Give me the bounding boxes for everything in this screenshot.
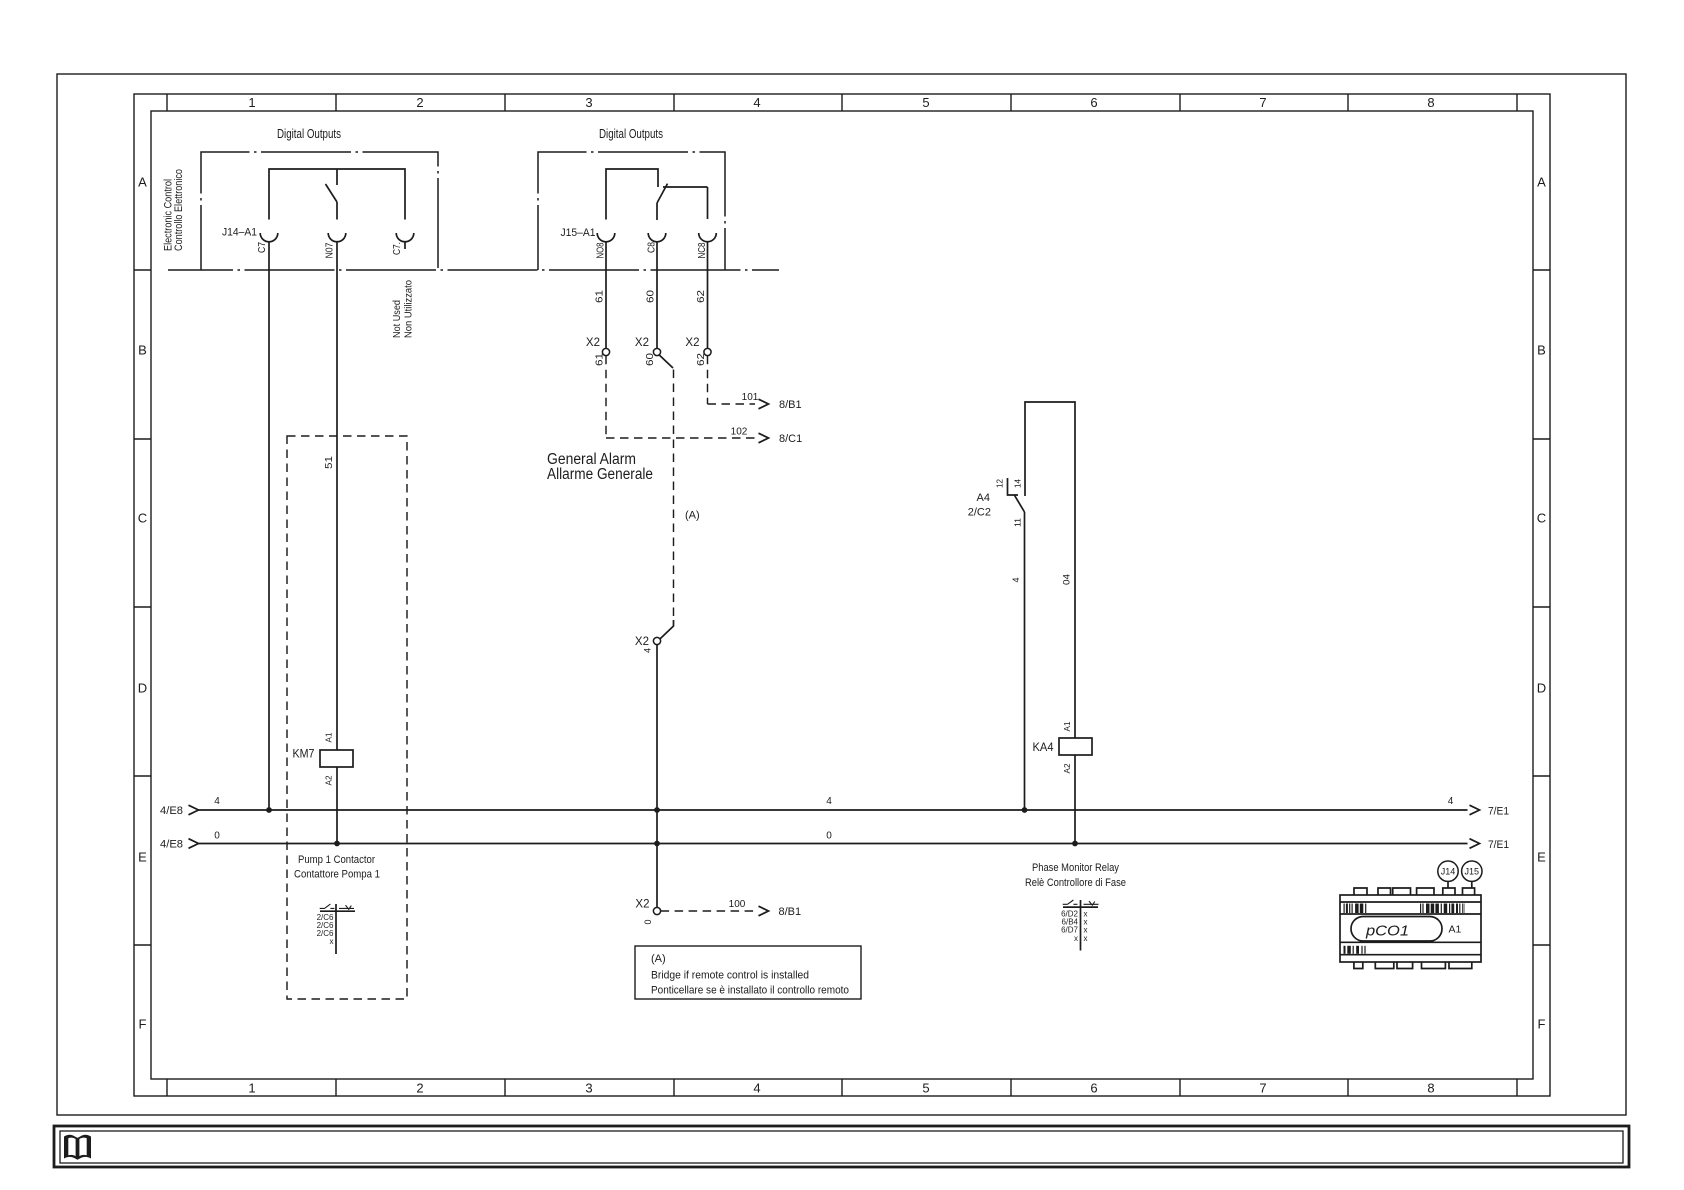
note box (A) (635, 946, 861, 999)
svg-text:1: 1 (248, 1081, 255, 1096)
wire 61 socket to X2 (605, 242, 607, 349)
wire stub C7. not used (404, 242, 406, 249)
svg-text:C7.: C7. (392, 242, 403, 255)
svg-text:E: E (138, 850, 147, 865)
svg-text:0: 0 (826, 831, 832, 842)
top tabs (1354, 888, 1475, 895)
svg-text:x: x (1074, 934, 1078, 943)
electronic control boundary bottom dash-dot line (168, 269, 779, 271)
contact A4 lever (1014, 495, 1025, 513)
svg-text:B: B (138, 343, 147, 358)
svg-text:5: 5 (922, 95, 929, 110)
svg-text:5: 5 (922, 1081, 929, 1096)
svg-text:C8: C8 (647, 242, 658, 253)
svg-text:4: 4 (826, 796, 832, 807)
arrow to 8/B1 (100) (759, 906, 769, 916)
relay contact N07 pin wire (336, 202, 338, 220)
svg-text:Ponticellare se è installato i: Ponticellare se è installato il controll… (651, 985, 849, 997)
relay contact box top (J14 output 7) (269, 169, 405, 220)
svg-text:Pump 1 Contactor: Pump 1 Contactor (298, 854, 375, 866)
svg-text:J14–A1: J14–A1 (222, 227, 257, 239)
wire 102 dashed to 8/C1 (606, 437, 755, 439)
port J15 circle (1462, 861, 1482, 881)
junction A2 / rail 0 (334, 841, 340, 847)
svg-text:J14: J14 (1441, 867, 1456, 877)
svg-text:C7: C7 (257, 242, 268, 253)
junction C7 / rail 4 (266, 807, 272, 813)
svg-text:51: 51 (324, 455, 335, 469)
svg-text:Relè Controllore di Fase: Relè Controllore di Fase (1025, 877, 1126, 889)
wire 62 socket to X2 (707, 242, 709, 349)
junction wire 11 / rail 4 (1022, 807, 1028, 813)
wire rail 0 down to X2:0 (656, 844, 658, 908)
svg-text:102: 102 (731, 427, 748, 438)
svg-text:4: 4 (753, 95, 760, 110)
connector strip (barcode) top-left (1344, 904, 1345, 914)
cross-reference mirror KA4 stem (1080, 900, 1082, 951)
relay contact box top (J15 output 8) (606, 169, 658, 220)
svg-text:x: x (330, 937, 334, 946)
svg-text:04: 04 (1062, 574, 1072, 585)
svg-text:7/E1: 7/E1 (1488, 839, 1509, 851)
svg-text:4: 4 (643, 648, 653, 653)
wire (A) bridge dashed down (673, 370, 675, 621)
wire N07 down to coil KM7 (336, 242, 338, 750)
contactor KM7 dashed enclosure (287, 436, 407, 999)
wire KA4 A2 to rail 0 (1074, 755, 1076, 844)
svg-text:62: 62 (696, 352, 707, 366)
mini NO contact symbol (320, 904, 335, 908)
arrow to 8/B1 (759, 399, 769, 409)
svg-text:KM7: KM7 (293, 747, 315, 761)
wire 100 dashed to 8/B1 (661, 910, 755, 912)
svg-text:8: 8 (1427, 95, 1434, 110)
svg-text:8/B1: 8/B1 (779, 906, 802, 918)
electronic control boundary box (J15) dash-dot (538, 152, 725, 270)
svg-text:Digital Outputs: Digital Outputs (599, 127, 663, 141)
svg-text:(A): (A) (685, 510, 700, 522)
rail wire 4 (199, 809, 1468, 811)
svg-text:Digital Outputs: Digital Outputs (277, 127, 341, 141)
svg-text:D: D (138, 681, 147, 696)
svg-text:1: 1 (248, 95, 255, 110)
svg-text:12: 12 (995, 479, 1005, 488)
svg-text:Phase Monitor Relay: Phase Monitor Relay (1032, 862, 1119, 874)
arrow to 7/E1 (rail 0) (1470, 839, 1480, 849)
svg-text:7: 7 (1259, 1081, 1266, 1096)
svg-text:A: A (1537, 175, 1546, 190)
svg-text:A2: A2 (1062, 763, 1072, 773)
svg-text:J15–A1: J15–A1 (561, 227, 596, 239)
svg-text:60: 60 (646, 289, 657, 303)
svg-text:NC8: NC8 (697, 242, 708, 258)
svg-text:2: 2 (416, 95, 423, 110)
svg-text:7/E1: 7/E1 (1488, 806, 1509, 818)
svg-text:NO8: NO8 (596, 242, 607, 258)
coil KA4 (1059, 738, 1092, 755)
relay contact NC8 pin wire (707, 187, 709, 219)
svg-text:0: 0 (214, 831, 220, 842)
svg-text:A1: A1 (1449, 924, 1462, 936)
wire X2:4 down to rails (656, 645, 658, 844)
switch lever X2:60 (659, 355, 673, 368)
mini NC contact symbol (KA4) (1084, 901, 1099, 905)
wire 11 down to rail 4 (1024, 512, 1026, 810)
rail wire 0 (199, 843, 1468, 845)
svg-text:pCO1: pCO1 (1365, 923, 1409, 940)
arrow to 7/E1 (rail 4) (1470, 805, 1480, 815)
svg-text:4: 4 (1011, 577, 1021, 582)
junction rail 4 / X2:4 (654, 807, 660, 813)
svg-text:Not Used: Not Used (392, 300, 403, 338)
wire 61 dashed down (605, 356, 607, 438)
port J15 stem (1471, 882, 1473, 889)
svg-text:8/C1: 8/C1 (779, 433, 802, 445)
svg-text:60: 60 (645, 352, 656, 366)
svg-text:X2: X2 (685, 337, 699, 349)
terminal X2:4 circle (653, 637, 660, 644)
svg-text:61: 61 (595, 352, 606, 366)
svg-text:101: 101 (742, 392, 759, 403)
wire top bar A4/04 (1025, 402, 1075, 738)
svg-text:14: 14 (1013, 479, 1023, 488)
junction KA4 A2 / rail 0 (1072, 841, 1078, 847)
electronic control boundary box (J14) dash-dot (201, 152, 438, 270)
controller A1 pCO1 body (1340, 895, 1481, 962)
cross-reference mirror KM7 stem (335, 904, 337, 954)
svg-text:61: 61 (595, 289, 606, 303)
svg-text:Controllo Elettronico: Controllo Elettronico (173, 169, 185, 251)
svg-text:A: A (138, 175, 147, 190)
svg-text:4/E8: 4/E8 (160, 839, 183, 851)
wire C7 down to rail 4 (268, 242, 270, 810)
svg-text:J15: J15 (1465, 867, 1480, 877)
terminal X2:62 circle (704, 348, 711, 355)
svg-text:A1: A1 (324, 732, 334, 742)
svg-text:3: 3 (585, 1081, 592, 1096)
svg-text:62: 62 (696, 289, 707, 303)
svg-text:4: 4 (1448, 796, 1454, 807)
svg-text:6: 6 (1090, 95, 1097, 110)
svg-text:C: C (138, 511, 147, 526)
connector socket NO8 (597, 233, 615, 242)
connector strip (barcode) bottom-left (1344, 946, 1346, 954)
arrow to 8/C1 (759, 433, 769, 443)
svg-text:8/B1: 8/B1 (779, 399, 802, 411)
svg-text:2/C2: 2/C2 (968, 507, 991, 519)
bottom tabs (1354, 962, 1472, 969)
connector socket C7 (260, 233, 278, 242)
terminal X2:0 circle (653, 907, 660, 914)
svg-text:Non Utilizzato: Non Utilizzato (404, 280, 415, 338)
svg-text:N07: N07 (325, 242, 336, 258)
port J14 stem (1447, 882, 1449, 889)
svg-text:100: 100 (729, 899, 746, 910)
port J14 circle (1438, 861, 1458, 881)
svg-text:4: 4 (214, 796, 220, 807)
svg-text:A4: A4 (977, 492, 990, 504)
connector socket C7. (396, 233, 414, 242)
wire A2 to rail 0 (336, 767, 338, 844)
terminal X2:60 circle (653, 348, 660, 355)
svg-text:F: F (139, 1017, 147, 1032)
svg-text:Allarme Generale: Allarme Generale (547, 466, 653, 483)
connector socket NC8 (699, 233, 717, 242)
cross-reference mirror KM7 bar (320, 910, 355, 912)
connector socket N07 (328, 233, 346, 242)
relay contact N07 fixed stub (336, 169, 338, 185)
svg-text:KA4: KA4 (1033, 740, 1054, 754)
switch lever to X2:4 (660, 620, 674, 639)
relay contact N07 lever (326, 184, 338, 202)
svg-text:X2: X2 (635, 899, 649, 911)
svg-text:4: 4 (753, 1081, 760, 1096)
wire 60 socket to X2 (656, 242, 658, 349)
svg-text:4/E8: 4/E8 (160, 805, 183, 817)
junction rail 0 / X2:4 (654, 841, 660, 847)
svg-text:A1: A1 (1062, 721, 1072, 731)
svg-text:(A): (A) (651, 953, 666, 965)
svg-text:X2: X2 (635, 337, 649, 349)
svg-text:C: C (1537, 511, 1546, 526)
svg-text:3: 3 (585, 95, 592, 110)
svg-text:X2: X2 (586, 337, 600, 349)
svg-text:E: E (1537, 850, 1546, 865)
connector strip (barcode) top-right (1420, 904, 1421, 914)
svg-text:Bridge if remote control is in: Bridge if remote control is installed (651, 970, 809, 982)
relay contact C8 lever (657, 184, 668, 203)
svg-text:8: 8 (1427, 1081, 1434, 1096)
svg-text:6: 6 (1090, 1081, 1097, 1096)
svg-text:X2: X2 (635, 636, 649, 648)
relay contact NC8 bar (663, 186, 708, 188)
svg-text:11: 11 (1013, 518, 1023, 527)
pCO1 logo (1351, 917, 1442, 942)
svg-text:B: B (1537, 343, 1546, 358)
relay contact C8 pin wire (656, 203, 658, 220)
connector socket C8 (648, 233, 666, 242)
svg-text:F: F (1538, 1017, 1546, 1032)
svg-text:x: x (1084, 934, 1088, 943)
cross-reference mirror KA4 bar (1063, 906, 1098, 908)
svg-text:Contattore Pompa 1: Contattore Pompa 1 (294, 869, 380, 881)
wire 62 dashed down (707, 356, 709, 404)
wire 101 dashed to 8/B1 (708, 403, 756, 405)
svg-text:7: 7 (1259, 95, 1266, 110)
svg-text:0: 0 (643, 919, 653, 924)
svg-text:D: D (1537, 681, 1546, 696)
coil KM7 (320, 750, 353, 767)
contact A4 stub 12 (1008, 478, 1019, 495)
mini NO contact symbol (KA4) (1063, 900, 1078, 904)
svg-text:A2: A2 (324, 775, 334, 785)
terminal X2:61 circle (602, 348, 609, 355)
svg-text:2: 2 (416, 1081, 423, 1096)
mini NC contact symbol (339, 905, 354, 909)
